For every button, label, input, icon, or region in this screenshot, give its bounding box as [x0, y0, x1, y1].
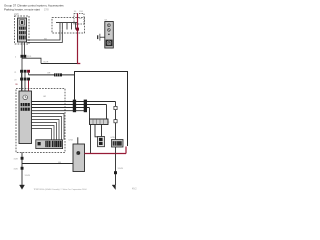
wire receiver to antenna upper [27, 29, 61, 40]
receiver pin block 3 [19, 36, 26, 40]
svg-text:GR: GR [47, 73, 51, 75]
title [4, 3, 64, 11]
pad 1 [114, 106, 117, 109]
svg-text:17/8: 17/8 [44, 9, 49, 11]
svg-text:31/45: 31/45 [25, 175, 31, 177]
ECU output wire 3 [32, 107, 90, 109]
red riser [125, 147, 127, 154]
antenna teeth [60, 23, 76, 30]
ground wire right [115, 154, 117, 186]
connector strip [36, 140, 63, 149]
heater unit frame top [75, 72, 128, 147]
ground pin left 1 [21, 157, 24, 160]
red supply bottom [85, 153, 127, 155]
resistor drop to supply [90, 125, 92, 154]
ECU fanout wire 4 [32, 123, 57, 140]
connector feed left [95, 125, 99, 137]
ECU 4/77 [19, 91, 32, 144]
heater pump unit [73, 144, 85, 172]
svg-text:2/26: 2/26 [14, 13, 19, 16]
pad 2 [114, 120, 117, 123]
ground symbol right [112, 185, 115, 190]
ground symbol left [20, 185, 25, 189]
ECU fanout wire 3 [32, 120, 60, 140]
box pins col 1 [73, 100, 76, 103]
ECU pin block 2 [21, 108, 30, 111]
red wire connector pin [76, 28, 79, 31]
wires below receiver [22, 42, 25, 55]
fuse circle [108, 24, 111, 27]
branch to pump [22, 163, 73, 165]
battery symbol [99, 34, 101, 41]
ECU fanout wire 5 [32, 126, 55, 140]
inline connector [54, 73, 62, 76]
branch wire to feed line [22, 58, 41, 63]
ECU pin block 1 [21, 103, 30, 106]
wires into ECU [22, 73, 29, 91]
ECU output wire 4 [32, 110, 88, 112]
receiver module 2/26 [18, 18, 27, 42]
node dot [108, 34, 110, 36]
box pins col 2 [84, 100, 87, 103]
ECU dashed box [16, 89, 65, 153]
receiver module dashed box [15, 16, 30, 44]
main feed line [41, 63, 77, 65]
antenna dashed box [52, 18, 85, 33]
interior wire 3 drop [89, 108, 91, 120]
antenna icon [20, 20, 25, 25]
svg-text:20: 20 [14, 80, 16, 82]
svg-text:49:2: 49:2 [132, 188, 137, 190]
svg-text:4: 4 [15, 57, 16, 59]
svg-text:21: 21 [14, 72, 16, 74]
power unit box [105, 22, 114, 49]
resistor element [90, 119, 109, 125]
ECU fanout wire 2 [32, 117, 62, 140]
inline connector box [98, 137, 105, 147]
svg-text:Parking heater, remote start: Parking heater, remote start [4, 7, 40, 11]
pin row 2 [20, 78, 23, 81]
switch circle [108, 29, 111, 32]
connector feed right [101, 125, 103, 138]
relay to ground link [115, 147, 117, 154]
fuse dashed box [74, 14, 84, 24]
relay [112, 140, 124, 148]
generator G [106, 40, 113, 47]
svg-text:2: 2 [109, 122, 110, 124]
wire to heater line [29, 74, 75, 76]
connector pin pair [21, 55, 24, 58]
wire down to ECU [21, 58, 23, 91]
receiver pin block 1 [19, 27, 26, 30]
battery feed wire [100, 36, 105, 38]
svg-text:GR: GR [43, 96, 47, 98]
ECU output wire 2 [32, 104, 107, 106]
clock icon [23, 95, 28, 100]
svg-text:TP3970202e (USA & Canada). © V: TP3970202e (USA & Canada). © Volvo Car C… [34, 188, 88, 191]
svg-text:31/45: 31/45 [118, 168, 124, 170]
red feed wire [77, 13, 80, 63]
ECU fanout wire 1 [32, 114, 65, 140]
antenna bus [56, 22, 78, 24]
interior wire 2 drop [106, 105, 108, 120]
wire receiver to antenna lower [27, 29, 63, 42]
ground pin left 2 [21, 167, 24, 170]
pump stub [77, 137, 79, 144]
receiver pin block 2 [19, 31, 26, 34]
ground wire left [21, 153, 23, 186]
ground pin right [114, 171, 117, 174]
interior wire 1 drop [115, 102, 117, 140]
ECU fanout wire 6 [32, 129, 52, 140]
ECU output wire 1 [32, 101, 116, 103]
pin row 1 [20, 70, 23, 73]
red stub [28, 80, 30, 91]
